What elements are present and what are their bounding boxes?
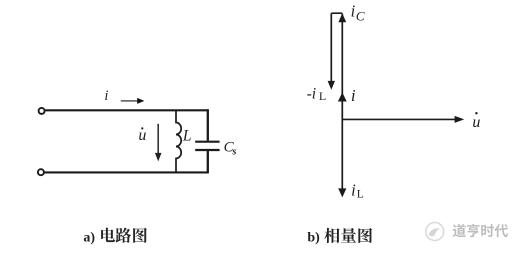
svg-text:b): b) — [307, 230, 320, 245]
svg-text:i: i — [104, 88, 108, 104]
svg-text:C: C — [356, 9, 365, 24]
svg-text:s: s — [232, 147, 237, 158]
svg-text:u: u — [472, 114, 480, 131]
svg-text:L: L — [182, 127, 192, 144]
svg-text:-i: -i — [307, 85, 316, 102]
svg-text:u: u — [138, 127, 146, 144]
svg-text:L: L — [357, 189, 364, 201]
svg-text:a): a) — [83, 230, 95, 245]
svg-text:L: L — [319, 89, 326, 103]
svg-text:i: i — [351, 86, 356, 105]
svg-text:i: i — [351, 181, 356, 200]
svg-text:i: i — [351, 2, 356, 21]
